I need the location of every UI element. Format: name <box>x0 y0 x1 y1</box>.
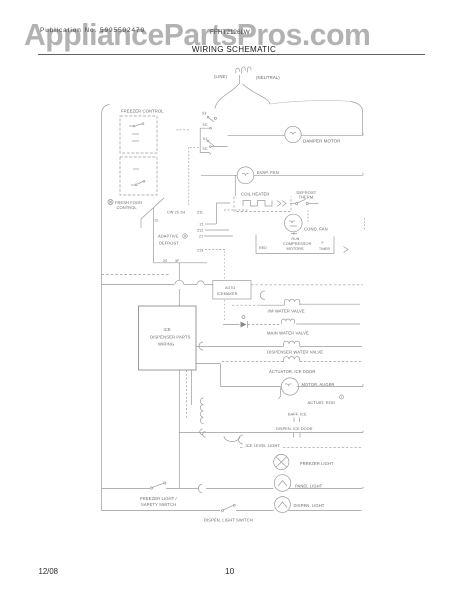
wire: dashed actuator row <box>222 361 283 363</box>
diode CR1 <box>241 322 247 328</box>
wire: damper row right <box>301 133 363 136</box>
svg-text:ACTUAT. ROD: ACTUAT. ROD <box>308 400 335 405</box>
svg-text:COND. FAN: COND. FAN <box>304 226 328 231</box>
connector cup <box>239 435 244 444</box>
svg-text:51: 51 <box>203 137 207 141</box>
svg-text:I/M WATER VALVE: I/M WATER VALVE <box>268 309 305 314</box>
svg-text:F: F <box>322 241 324 245</box>
svg-text:53: 53 <box>202 112 206 116</box>
svg-text:SAFETY SWITCH: SAFETY SWITCH <box>141 502 176 507</box>
svg-text:21: 21 <box>199 235 203 239</box>
evaporator fan motor M2 <box>237 167 254 184</box>
connector cup <box>198 484 202 493</box>
connector arrow <box>344 247 349 253</box>
heater dashed enclosure <box>234 197 291 212</box>
adaptive defrost bottom edge <box>154 262 208 264</box>
svg-text:212: 212 <box>197 229 203 233</box>
title rule <box>38 54 425 55</box>
wire: faint vertical link <box>224 251 226 322</box>
publication number <box>40 27 145 34</box>
freezer light safety switch <box>150 487 152 489</box>
wire: water valve row 1 left <box>232 304 260 306</box>
wire: water valve row 3 left <box>196 345 284 347</box>
svg-text:ACTUATOR, ICE DOOR: ACTUATOR, ICE DOOR <box>269 369 315 374</box>
freezer control box 1 <box>120 116 157 153</box>
svg-text:DISPENSER PARTS: DISPENSER PARTS <box>150 335 191 340</box>
wire: short drop <box>140 219 142 228</box>
svg-text:BAFF. ICE: BAFF. ICE <box>288 413 307 417</box>
svg-text:FREEZER LIGHT: FREEZER LIGHT <box>300 461 334 466</box>
wire <box>206 488 274 490</box>
svg-text:5C: 5C <box>203 123 208 127</box>
watermark AppliancePartsPros.com <box>24 17 370 53</box>
wire: dashed ice level row <box>240 446 245 448</box>
wire: ice door row <box>179 431 363 433</box>
junction loop <box>175 280 184 284</box>
svg-text:AUTO: AUTO <box>225 286 235 290</box>
svg-text:2L: 2L <box>155 219 159 223</box>
wire: icemaker feed row <box>102 284 175 286</box>
wire: evap fan row left <box>201 174 237 176</box>
wire hop <box>197 281 204 285</box>
svg-text:FREEZER LIGHT /: FREEZER LIGHT / <box>140 496 178 501</box>
svg-text:RED: RED <box>259 246 267 250</box>
page title <box>2 45 464 54</box>
svg-text:DAMPER MOTOR: DAMPER MOTOR <box>303 138 340 143</box>
wire: dashed drop from thermostat <box>307 210 309 222</box>
svg-text:DISPEN. LIGHT: DISPEN. LIGHT <box>294 503 325 508</box>
footer page number <box>225 566 234 576</box>
circled dot <box>340 395 344 399</box>
wire <box>248 324 282 326</box>
svg-text:WIRING: WIRING <box>158 342 174 347</box>
wire: diagonal feed to adaptive defrost <box>141 198 164 219</box>
wire: dispenser light row left <box>102 510 221 512</box>
svg-text:DISPEN. ICE DOOR: DISPEN. ICE DOOR <box>276 427 313 431</box>
dispenser light B3 <box>275 497 291 513</box>
wire: drop to coil heater <box>234 175 236 196</box>
dispenser light switch contact <box>222 510 224 512</box>
wire: drop to big box <box>178 289 180 306</box>
svg-text:COMPRESSOR: COMPRESSOR <box>283 242 312 246</box>
wire: dashed branch row <box>102 273 169 275</box>
condenser fan / compressor motor M3 <box>285 214 303 232</box>
wire: evap fan row right <box>254 173 363 176</box>
wire: auger row right <box>297 384 363 387</box>
svg-text:TIMER: TIMER <box>319 247 330 251</box>
wire: panel light row left <box>102 488 151 490</box>
switch arc below <box>224 436 240 442</box>
svg-text:ICE LEVEL LIGHT: ICE LEVEL LIGHT <box>246 443 281 448</box>
svg-text:ICEMAKER: ICEMAKER <box>217 292 238 296</box>
wire: panel light row right <box>288 487 363 489</box>
wire: mechanical link dashes <box>176 129 190 131</box>
thermostat contact inside box 1 <box>129 124 142 126</box>
wire: auger row left <box>221 386 282 388</box>
panel light B2 <box>274 475 291 492</box>
right bus connector dashes <box>364 218 366 230</box>
svg-text:RUN: RUN <box>292 237 300 241</box>
wire: corner at 216 <box>217 203 231 224</box>
wire: neutral cord sweep middle (faint) <box>270 100 351 104</box>
wire: actuator row from box <box>196 363 220 365</box>
svg-text:MOTORS: MOTORS <box>287 247 305 251</box>
harness connector arcs <box>200 398 203 424</box>
baffle contact marks <box>294 418 300 423</box>
ice door actuator solenoid L4 <box>284 357 300 362</box>
wire: left supply bus hook <box>102 105 110 114</box>
wire <box>204 284 213 286</box>
connector cup on row 3 <box>199 342 203 350</box>
adaptive defrost control left edge <box>153 208 155 263</box>
svg-text:MOTOR, AUGER: MOTOR, AUGER <box>302 382 335 387</box>
footer date <box>39 567 59 576</box>
wire: line-side cord curve <box>215 84 239 109</box>
svg-text:THERM.: THERM. <box>299 195 315 200</box>
svg-text:DEFROST: DEFROST <box>159 241 179 246</box>
wire: row 2 right <box>296 323 360 325</box>
symbol circled A <box>183 234 188 239</box>
break symbol <box>294 433 301 438</box>
freezer control box 2 <box>120 157 157 195</box>
wire: neutral-side cord curve <box>243 84 271 104</box>
model number <box>210 29 250 36</box>
svg-text:5C: 5C <box>203 147 208 151</box>
damper motor M1 <box>285 126 301 142</box>
svg-text:CW 25 2H: CW 25 2H <box>167 211 185 215</box>
wire: auger drop <box>220 364 222 387</box>
wire: stubs below box <box>178 370 180 489</box>
svg-text:COIL HEATER: COIL HEATER <box>241 192 270 197</box>
icemaker water valve solenoid L1 <box>284 299 300 305</box>
svg-text:EVAP. FAN: EVAP. FAN <box>257 170 279 175</box>
motor tail <box>278 388 280 399</box>
svg-text:(LINE): (LINE) <box>214 74 227 79</box>
defrost thermostat contact <box>290 203 295 205</box>
svg-text:DISPENSER WATER VALVE: DISPENSER WATER VALVE <box>267 350 323 355</box>
wire: water valve row 2 left <box>223 324 240 326</box>
wire <box>236 510 274 512</box>
connector cup <box>260 291 265 299</box>
dispenser water valve solenoid L3 <box>284 341 300 346</box>
svg-text:FREEZER CONTROL: FREEZER CONTROL <box>121 109 164 114</box>
wire: row 3 right <box>300 345 362 347</box>
freezer light B1 <box>274 454 289 469</box>
svg-text:MAIN WATER VALVE: MAIN WATER VALVE <box>267 331 309 336</box>
wire: drop from adaptive defrost <box>178 263 180 281</box>
fresh food control symbol <box>108 199 113 204</box>
svg-text:25: 25 <box>163 259 167 263</box>
freezer door switch stack <box>200 116 227 154</box>
svg-text:(NEUTRAL): (NEUTRAL) <box>256 75 280 80</box>
svg-text:219: 219 <box>197 249 203 253</box>
wire: dashed row to right bus <box>251 284 363 286</box>
wire: row 1 right <box>300 303 360 305</box>
svg-text:3F: 3F <box>175 259 180 263</box>
svg-text:PANEL LIGHT: PANEL LIGHT <box>295 483 323 488</box>
icemaker box <box>213 281 251 299</box>
wire: left vertical bus <box>101 113 103 511</box>
svg-text:ICE: ICE <box>164 327 171 332</box>
svg-text:21L: 21L <box>197 211 204 215</box>
svg-text:DISPEN. LIGHT SWITCH: DISPEN. LIGHT SWITCH <box>204 518 253 523</box>
power plug P1 <box>236 67 251 84</box>
water valve solenoid L2 <box>282 319 295 324</box>
wire: dashed stub <box>224 209 248 211</box>
wire: neutral cord right hook to bus <box>351 102 363 136</box>
defrost heater element <box>243 201 272 207</box>
connector chevrons <box>277 201 286 207</box>
wire <box>184 284 197 286</box>
contact inside box 2 <box>133 168 139 170</box>
auger motor M4 <box>281 378 298 395</box>
svg-text:ADAPTIVE: ADAPTIVE <box>158 234 179 239</box>
wire: damper row <box>228 134 285 136</box>
ice dispenser parts box <box>139 306 197 370</box>
svg-text:21: 21 <box>200 223 204 227</box>
compressor block outline <box>256 235 334 254</box>
wire: circle to compressor box <box>291 232 297 235</box>
wire: dispenser light row right <box>288 510 361 512</box>
svg-text:CONTROL: CONTROL <box>117 205 138 210</box>
wire: dashed right <box>300 361 363 363</box>
